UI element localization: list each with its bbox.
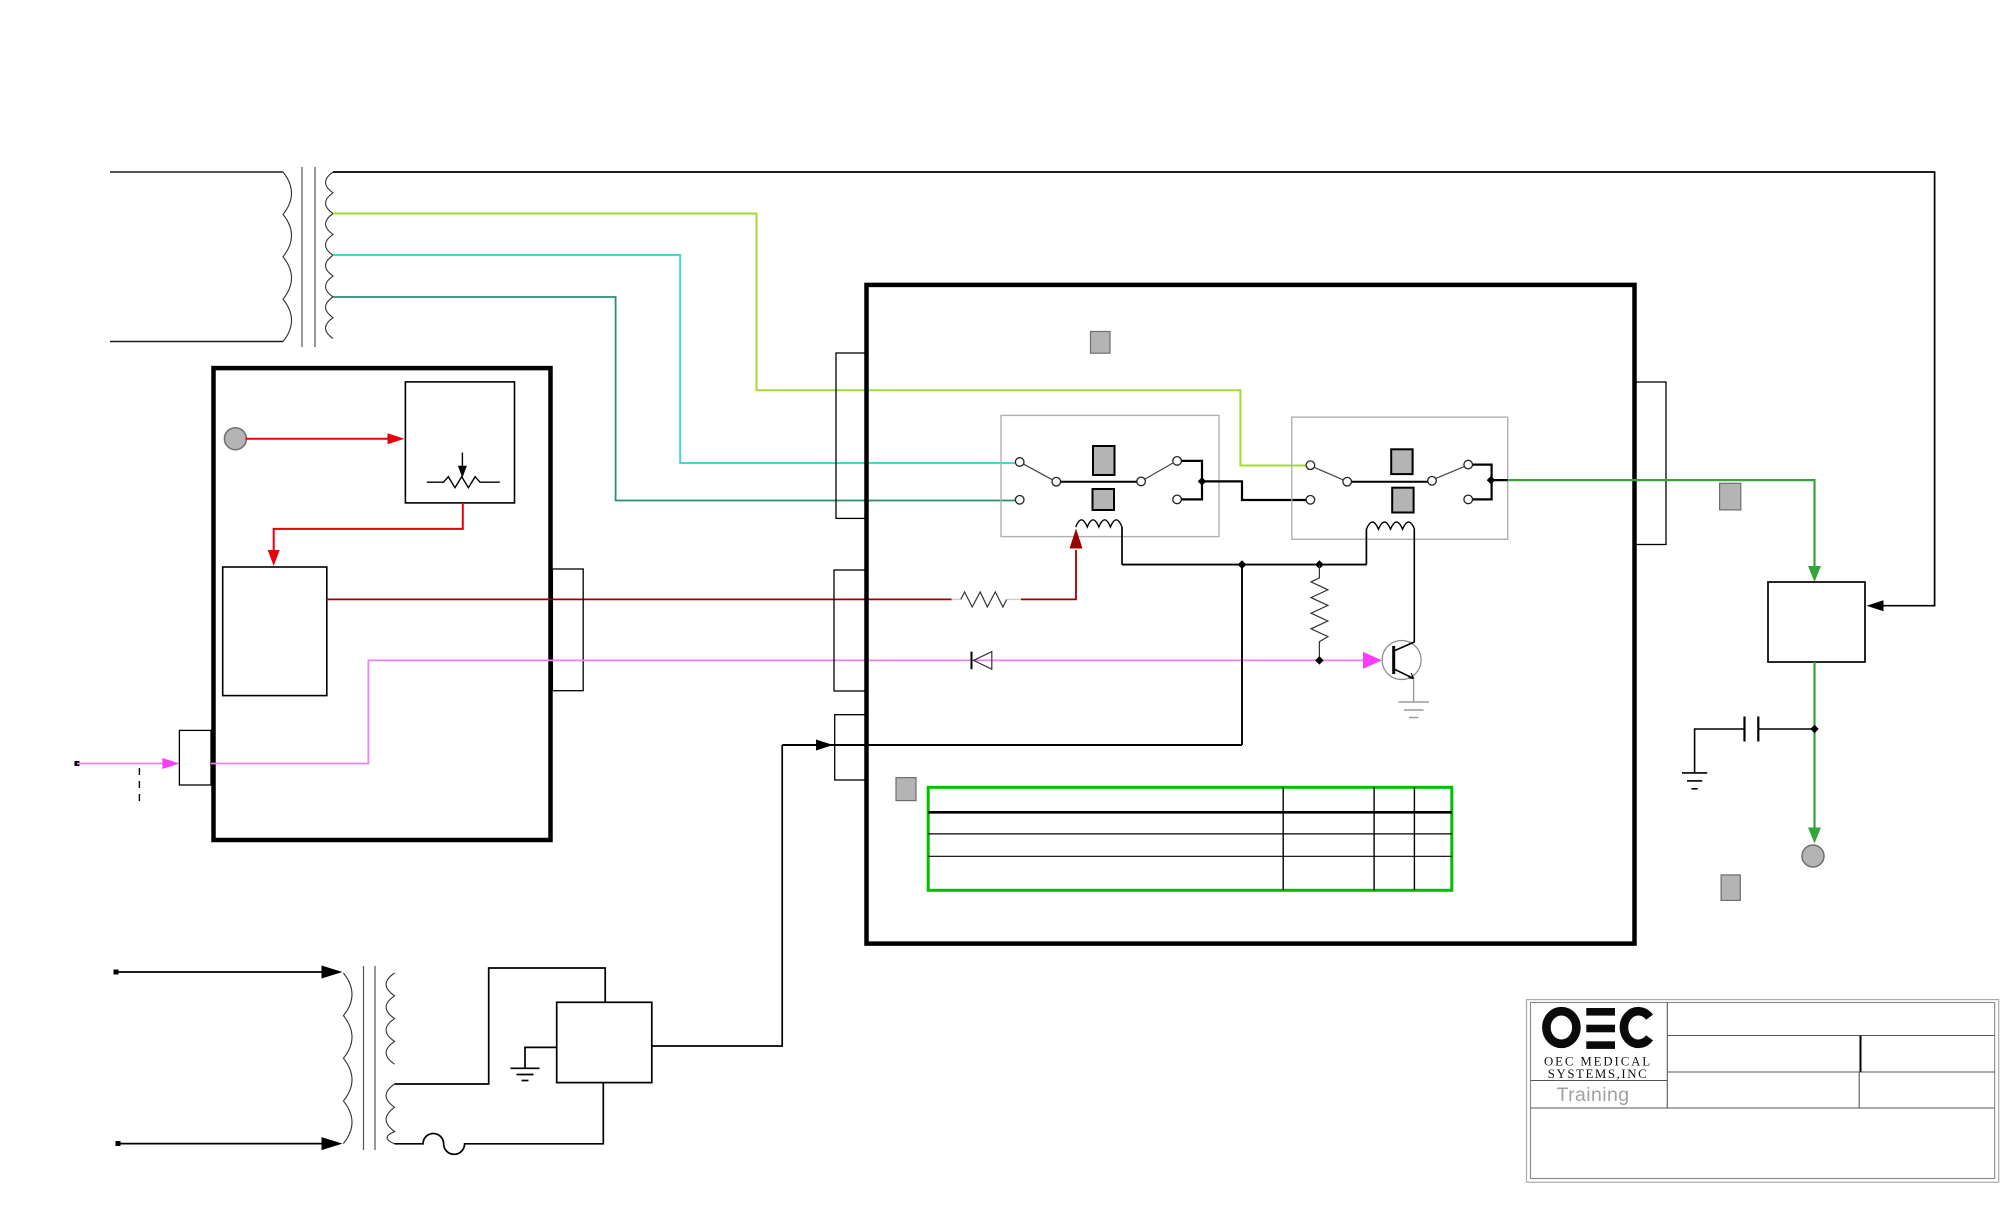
diode D1 <box>971 652 973 670</box>
transformer T2 primary winding <box>343 973 352 1144</box>
transformer T2 secondary winding lower <box>386 1084 395 1144</box>
transformer T1 secondary winding <box>326 172 334 339</box>
wire: bus down to keying line <box>1241 565 1243 745</box>
pad: gray square (right of central box) <box>1720 483 1741 510</box>
wire: T1 secondary top tap to power supply box (black) <box>333 172 1935 606</box>
connector C4 on central box right edge <box>1635 382 1667 545</box>
transformer T2 core <box>364 966 376 1150</box>
wire: supply box ground lead <box>525 1047 557 1068</box>
svg-text:SYSTEMS,INC: SYSTEMS,INC <box>1548 1067 1648 1081</box>
interface box B3 <box>1768 582 1865 662</box>
relay K1 switch blades <box>1024 464 1053 480</box>
wire: keying line from bottom supply into box <box>782 744 1242 746</box>
potentiometer R1 <box>427 453 500 488</box>
node: junction on green <box>1810 725 1818 733</box>
connector on left box right edge <box>552 569 583 691</box>
node: junction <box>1315 560 1324 569</box>
left control box enclosure <box>214 368 551 840</box>
wire: supply output up to central box <box>652 745 782 1046</box>
wire: coil common bus <box>1122 564 1366 566</box>
resistor R2 (vertical) <box>1311 565 1328 661</box>
pad: gray square (left of green table) <box>896 778 916 801</box>
node: junction <box>1238 560 1247 569</box>
relay K1 contacts <box>1015 457 1181 505</box>
relay K1 outline <box>1001 415 1219 536</box>
wire: T2 secondary bottom tap with loop <box>395 1083 604 1155</box>
ground (transistor emitter) <box>1399 679 1430 718</box>
transformer T2 secondary winding upper <box>386 973 395 1064</box>
transformer T1 primary winding <box>110 172 292 342</box>
title block outer border <box>1527 1000 1999 1183</box>
wire: T2 secondary mid tap to supply box <box>395 968 606 1084</box>
relay K2 switch blades <box>1314 467 1343 480</box>
wire: pink through left box <box>211 660 1363 763</box>
wire: red arrow from terminal to potentiometer box <box>245 438 389 440</box>
wire: green output from relay K2 <box>1508 480 1815 567</box>
title block dividers <box>1531 1003 1995 1109</box>
relay K1 armature core squares <box>1093 446 1115 475</box>
connector C1 on central box left edge <box>836 353 867 518</box>
wire: pink input <box>77 763 163 765</box>
wire: green output below box <box>1813 662 1815 828</box>
wire: dashed stub <box>138 768 140 806</box>
relay K2 coil <box>1366 522 1414 529</box>
potentiometer box <box>405 382 514 503</box>
wire: relay K2 output bracket <box>1473 465 1492 500</box>
capacitor C1 <box>1758 728 1814 730</box>
connector on left box left edge <box>179 730 211 785</box>
wire: T1 tap dark teal <box>333 297 1016 501</box>
transformer T1 core <box>302 167 315 347</box>
transistor Q1 <box>1382 529 1421 679</box>
pad: gray square (bottom right) <box>1721 875 1740 901</box>
wire: relay K1 output bracket <box>1182 461 1202 500</box>
central relay box enclosure <box>867 285 1635 944</box>
node: junction <box>1487 476 1495 484</box>
resistor R3 (horizontal) <box>961 592 1007 607</box>
node: pink input terminal dot <box>75 761 80 766</box>
wire: red from potentiometer to control block <box>274 503 463 550</box>
node: junction <box>1198 477 1206 485</box>
relay K2 contacts <box>1306 460 1472 504</box>
relay K1 coil <box>1076 520 1122 527</box>
node: line input dot <box>114 970 119 975</box>
wire: T1 tap turquoise <box>333 255 1016 463</box>
wire: line input bottom <box>118 1143 322 1145</box>
ground (capacitor) <box>1682 773 1707 789</box>
wire: line input top <box>116 971 322 973</box>
wire: relay K1 coil right lead <box>1121 527 1123 565</box>
connector C2 on central box left edge <box>834 570 867 691</box>
wire: dark red from control block (mA command) <box>327 598 952 600</box>
relay K2 outline <box>1292 417 1508 539</box>
svg-text:Training: Training <box>1557 1084 1630 1106</box>
node: line input dot <box>116 1141 121 1146</box>
pad: gray square (top of central box) <box>1091 332 1111 354</box>
node: junction on pink line <box>1315 656 1323 664</box>
ground (supply) <box>511 1068 540 1080</box>
node: gray output terminal <box>1802 845 1824 867</box>
OEC logo <box>1546 1008 1615 1049</box>
relay K2 armature core squares <box>1391 449 1412 474</box>
wire: dark red coil drive with arrow <box>952 598 961 600</box>
green bordered table <box>928 787 1452 890</box>
supply box B4 <box>557 1002 652 1082</box>
wire: relay K2 coil left lead <box>1365 529 1367 564</box>
wire: relay K1 output to relay K2 <box>1202 481 1307 500</box>
connector C3 on central box left edge <box>835 715 867 780</box>
wire: T1 tap yellow-green <box>333 214 1307 466</box>
control block U1 <box>223 567 327 696</box>
node: gray terminal circle <box>224 428 246 450</box>
wire: capacitor to ground <box>1695 729 1745 772</box>
wire: relay K2 output to box edge <box>1491 479 1508 481</box>
